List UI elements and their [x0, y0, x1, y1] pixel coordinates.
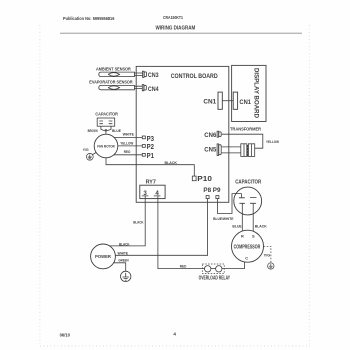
- svg-text:CN4: CN4: [148, 86, 159, 93]
- connector CN4: [142, 85, 159, 93]
- capacitor C-FAN: [97, 118, 115, 126]
- wire fan motor ground lead: [93, 152, 97, 154]
- svg-text:Publication No: 5995556816: Publication No: 5995556816: [63, 16, 115, 21]
- svg-text:CRA150KT1: CRA150KT1: [163, 15, 183, 20]
- connector CN6: [204, 131, 221, 139]
- wire evaporator sensor to CN4: [134, 86, 142, 88]
- svg-text:CAPACITOR: CAPACITOR: [235, 180, 261, 186]
- svg-text:POWER: POWER: [95, 254, 111, 259]
- svg-text:Y/G: Y/G: [264, 254, 271, 258]
- ambient sensor RT1: [96, 67, 134, 77]
- wire RY7 pin4 to overload relay red: [158, 196, 245, 269]
- capacitor C-COMP: [234, 187, 262, 215]
- wire compressor case ground dashed: [264, 246, 271, 262]
- ground power: [121, 271, 131, 281]
- svg-text:BLUE: BLUE: [112, 129, 121, 133]
- svg-text:06/10: 06/10: [60, 333, 71, 338]
- connector P10: [192, 174, 212, 183]
- connector CN3: [143, 71, 159, 79]
- svg-text:BLACK: BLACK: [119, 242, 130, 246]
- wire fan motor common to P10: [106, 158, 194, 176]
- wire power green to ground: [114, 263, 126, 272]
- control board U-CB: [136, 66, 229, 202]
- svg-text:S: S: [252, 234, 255, 239]
- connector P2: [142, 142, 154, 151]
- svg-text:RED: RED: [180, 265, 187, 269]
- wire CN1 to CN1: [222, 100, 233, 102]
- transformer T1 windings: [241, 144, 255, 157]
- svg-text:FAN MOTOR: FAN MOTOR: [97, 144, 115, 148]
- svg-text:WHITE: WHITE: [118, 251, 129, 255]
- connector CN5: [204, 144, 221, 156]
- svg-text:P1: P1: [147, 151, 154, 160]
- svg-text:Y/G: Y/G: [83, 148, 89, 152]
- relay RY7: [140, 180, 165, 199]
- svg-text:AMBIENT SENSOR: AMBIENT SENSOR: [96, 67, 132, 72]
- svg-text:CAPACITOR: CAPACITOR: [95, 112, 118, 117]
- svg-text:CN3: CN3: [148, 72, 159, 79]
- svg-text:TRANSFORMER: TRANSFORMER: [230, 127, 261, 133]
- svg-text:CN1: CN1: [239, 99, 251, 106]
- header rule: [60, 32, 302, 34]
- svg-text:YELLOW: YELLOW: [266, 140, 279, 144]
- connector P3: [142, 134, 154, 143]
- connector CN1 on control board: [203, 92, 222, 109]
- evaporator sensor RT2: [89, 80, 134, 90]
- power supply PS1: [91, 244, 116, 269]
- wire power white to P8: [115, 199, 207, 256]
- svg-text:BLACK: BLACK: [133, 221, 144, 225]
- wire fan motor to P1: [114, 154, 142, 156]
- wire capacitor to compressor R blue: [241, 203, 243, 230]
- connector CN1 on display board: [233, 92, 251, 109]
- connector P1: [142, 151, 154, 160]
- svg-text:RED: RED: [124, 150, 131, 154]
- wire RY7 pin3 to power black: [110, 196, 146, 246]
- page dotted border right: [308, 25, 310, 346]
- wire CN6 to transformer yellow: [222, 134, 263, 148]
- page dotted border bottom: [40, 345, 310, 347]
- svg-text:YELLOW: YELLOW: [120, 141, 133, 145]
- overload relay OL1: [199, 264, 231, 281]
- page dotted border left: [39, 25, 41, 346]
- svg-text:BROWN: BROWN: [88, 129, 98, 133]
- wire P9 to capacitor blue/white: [217, 194, 241, 214]
- svg-text:R: R: [241, 234, 244, 239]
- compressor M2: [232, 230, 264, 262]
- svg-text:BLUE: BLUE: [232, 224, 242, 228]
- svg-text:CN5: CN5: [204, 146, 216, 153]
- svg-text:COMPRESSOR: COMPRESSOR: [234, 245, 261, 251]
- svg-text:BLUE/WHITE: BLUE/WHITE: [213, 217, 234, 221]
- wire capacitor to fan motor: [101, 126, 111, 134]
- svg-text:C: C: [245, 255, 248, 260]
- wire fan motor to P3: [114, 136, 142, 138]
- svg-text:WIRING DIAGRAM: WIRING DIAGRAM: [156, 26, 196, 32]
- wire capacitor to compressor S black: [252, 203, 254, 231]
- svg-text:CN1: CN1: [203, 99, 216, 106]
- ground compressor: [268, 263, 274, 269]
- svg-text:P8 P9: P8 P9: [203, 187, 220, 194]
- wire CN5 to transformer: [222, 147, 241, 153]
- svg-text:P10: P10: [197, 174, 212, 183]
- svg-text:DISPLAY BOARD: DISPLAY BOARD: [252, 68, 259, 118]
- svg-text:P2: P2: [147, 142, 154, 151]
- svg-text:4: 4: [173, 332, 176, 337]
- svg-text:WHITE: WHITE: [123, 133, 135, 137]
- svg-text:EVAPORATOR SENSOR: EVAPORATOR SENSOR: [89, 80, 133, 85]
- display board U-DB: [232, 65, 266, 121]
- connector P9: [216, 196, 219, 199]
- wire ambient sensor to CN3: [134, 73, 142, 76]
- svg-text:OVERLOAD RELAY: OVERLOAD RELAY: [199, 275, 231, 281]
- svg-text:CN6: CN6: [204, 132, 216, 139]
- fan motor M1: [94, 134, 118, 158]
- ground fan motor: [86, 153, 93, 160]
- svg-text:CONTROL BOARD: CONTROL BOARD: [171, 73, 218, 80]
- svg-text:BLACK: BLACK: [255, 224, 267, 228]
- svg-text:GREEN: GREEN: [118, 259, 128, 263]
- connector P8: [206, 196, 209, 199]
- wire fan motor to P2: [118, 145, 143, 147]
